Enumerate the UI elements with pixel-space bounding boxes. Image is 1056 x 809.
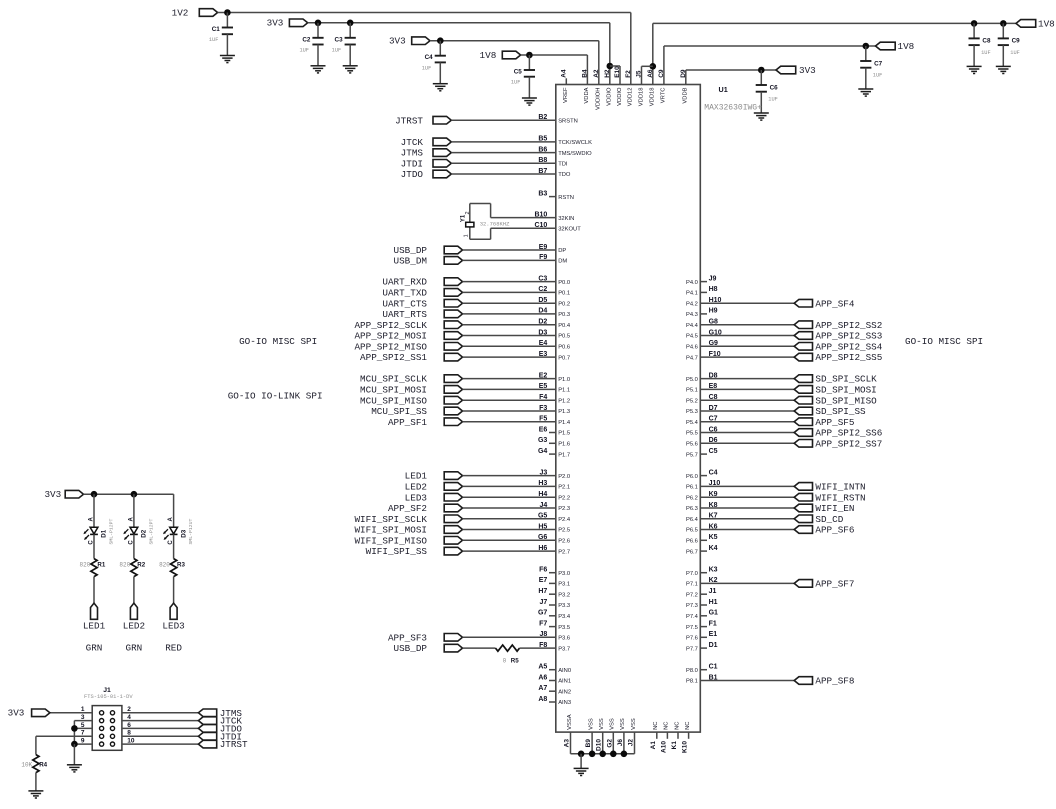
svg-text:MCU_SPI_MOSI: MCU_SPI_MOSI bbox=[360, 385, 427, 396]
svg-text:VSS: VSS bbox=[631, 718, 637, 730]
svg-text:USB_DM: USB_DM bbox=[394, 256, 427, 267]
svg-text:3V3: 3V3 bbox=[267, 18, 284, 29]
svg-text:P5.5: P5.5 bbox=[686, 431, 698, 437]
svg-text:P3.0: P3.0 bbox=[558, 571, 570, 577]
svg-text:GO-IO MISC SPI: GO-IO MISC SPI bbox=[905, 336, 983, 347]
svg-text:P4.4: P4.4 bbox=[686, 323, 699, 329]
svg-text:VDD12: VDD12 bbox=[628, 88, 634, 107]
svg-text:K6: K6 bbox=[709, 523, 718, 530]
svg-text:G3: G3 bbox=[538, 437, 547, 444]
svg-text:1UF: 1UF bbox=[332, 47, 342, 53]
svg-text:E10: E10 bbox=[614, 66, 621, 78]
svg-text:G5: G5 bbox=[538, 513, 547, 520]
svg-text:TDI: TDI bbox=[558, 162, 568, 168]
svg-text:B1: B1 bbox=[709, 674, 718, 681]
svg-text:WIFI_RSTN: WIFI_RSTN bbox=[815, 492, 865, 503]
svg-text:P2.0: P2.0 bbox=[558, 474, 570, 480]
svg-text:APP_SPI2_SS6: APP_SPI2_SS6 bbox=[815, 428, 882, 439]
svg-text:P0.7: P0.7 bbox=[558, 355, 570, 361]
svg-text:B3: B3 bbox=[538, 190, 547, 197]
svg-text:AIN2: AIN2 bbox=[558, 689, 571, 695]
svg-text:1UF: 1UF bbox=[299, 47, 309, 53]
svg-text:J4: J4 bbox=[540, 502, 548, 509]
svg-text:E2: E2 bbox=[539, 372, 548, 379]
svg-text:DM: DM bbox=[558, 259, 567, 265]
svg-text:P7.4: P7.4 bbox=[686, 614, 699, 620]
svg-text:C9: C9 bbox=[1012, 38, 1021, 45]
svg-text:P0.3: P0.3 bbox=[558, 312, 570, 318]
svg-text:RSTN: RSTN bbox=[558, 195, 574, 201]
svg-text:820: 820 bbox=[159, 562, 170, 569]
svg-text:GRN: GRN bbox=[126, 642, 143, 653]
svg-text:APP_SF7: APP_SF7 bbox=[815, 579, 854, 590]
svg-text:K7: K7 bbox=[709, 513, 718, 520]
svg-text:B9: B9 bbox=[585, 739, 592, 748]
svg-text:SD_SPI_SCLK: SD_SPI_SCLK bbox=[815, 374, 877, 385]
svg-text:A6: A6 bbox=[647, 69, 654, 78]
svg-text:SML-P12UT: SML-P12UT bbox=[188, 519, 194, 545]
svg-text:J9: J9 bbox=[709, 275, 717, 282]
svg-text:JTRST: JTRST bbox=[395, 115, 423, 126]
svg-text:LED3: LED3 bbox=[162, 621, 184, 632]
svg-text:H10: H10 bbox=[709, 297, 722, 304]
svg-text:NC: NC bbox=[664, 722, 670, 730]
svg-text:G1: G1 bbox=[709, 610, 718, 617]
svg-text:P5.2: P5.2 bbox=[686, 398, 698, 404]
svg-text:APP_SPI2_MOSI: APP_SPI2_MOSI bbox=[354, 331, 427, 342]
svg-text:JTMS: JTMS bbox=[401, 148, 424, 159]
svg-text:0: 0 bbox=[503, 657, 507, 664]
svg-text:K5: K5 bbox=[709, 534, 718, 541]
svg-text:WIFI_INTN: WIFI_INTN bbox=[815, 482, 865, 493]
svg-text:USB_DP: USB_DP bbox=[394, 643, 428, 654]
svg-text:1UF: 1UF bbox=[1010, 50, 1020, 56]
svg-text:3V3: 3V3 bbox=[8, 708, 25, 719]
svg-text:2: 2 bbox=[465, 211, 471, 214]
svg-text:J8: J8 bbox=[540, 631, 548, 638]
svg-text:P2.6: P2.6 bbox=[558, 539, 570, 545]
svg-text:LED1: LED1 bbox=[83, 621, 106, 632]
svg-text:F1: F1 bbox=[709, 620, 717, 627]
svg-text:A4: A4 bbox=[560, 69, 567, 78]
svg-text:P4.5: P4.5 bbox=[686, 334, 698, 340]
svg-text:3V3: 3V3 bbox=[44, 489, 61, 500]
svg-text:P2.3: P2.3 bbox=[558, 506, 570, 512]
svg-text:D6: D6 bbox=[709, 437, 718, 444]
svg-text:AIN0: AIN0 bbox=[558, 668, 571, 674]
svg-text:SD_SPI_MISO: SD_SPI_MISO bbox=[815, 395, 877, 406]
svg-text:H4: H4 bbox=[538, 491, 547, 498]
svg-text:P6.5: P6.5 bbox=[686, 528, 698, 534]
svg-text:P5.7: P5.7 bbox=[686, 452, 698, 458]
svg-text:GO-IO MISC SPI: GO-IO MISC SPI bbox=[239, 336, 317, 347]
svg-text:C7: C7 bbox=[709, 416, 718, 423]
svg-text:UART_TXD: UART_TXD bbox=[382, 288, 427, 299]
svg-text:APP_SPI2_SS3: APP_SPI2_SS3 bbox=[815, 331, 882, 342]
svg-text:P0.4: P0.4 bbox=[558, 323, 571, 329]
svg-text:P4.6: P4.6 bbox=[686, 345, 698, 351]
svg-text:APP_SPI2_SS1: APP_SPI2_SS1 bbox=[360, 352, 427, 363]
svg-text:P1.6: P1.6 bbox=[558, 442, 570, 448]
svg-text:P3.5: P3.5 bbox=[558, 625, 570, 631]
svg-text:WIFI_SPI_SS: WIFI_SPI_SS bbox=[366, 546, 428, 557]
svg-text:SML-P12PT: SML-P12PT bbox=[109, 519, 115, 545]
svg-text:B6: B6 bbox=[538, 146, 547, 153]
svg-text:JTCK: JTCK bbox=[401, 137, 424, 148]
svg-text:H7: H7 bbox=[538, 588, 547, 595]
svg-text:APP_SF4: APP_SF4 bbox=[815, 298, 854, 309]
svg-text:VDDB: VDDB bbox=[683, 87, 689, 103]
svg-text:G2: G2 bbox=[606, 739, 613, 748]
svg-text:1V8: 1V8 bbox=[898, 41, 915, 52]
svg-text:P4.0: P4.0 bbox=[686, 280, 698, 286]
svg-text:B2: B2 bbox=[538, 114, 547, 121]
svg-text:J1: J1 bbox=[709, 588, 717, 595]
svg-text:P7.1: P7.1 bbox=[686, 582, 698, 588]
svg-text:P2.5: P2.5 bbox=[558, 528, 570, 534]
svg-text:K2: K2 bbox=[709, 577, 718, 584]
svg-text:J10: J10 bbox=[709, 480, 721, 487]
svg-text:D5: D5 bbox=[538, 297, 547, 304]
svg-text:1UF: 1UF bbox=[511, 80, 521, 86]
svg-text:P1.5: P1.5 bbox=[558, 431, 570, 437]
svg-text:1UF: 1UF bbox=[209, 37, 219, 43]
svg-text:APP_SPI2_SS2: APP_SPI2_SS2 bbox=[815, 320, 882, 331]
svg-text:APP_SPI2_SS7: APP_SPI2_SS7 bbox=[815, 438, 882, 449]
svg-text:APP_SF3: APP_SF3 bbox=[388, 632, 427, 643]
svg-text:K10: K10 bbox=[682, 741, 689, 753]
svg-text:B8: B8 bbox=[538, 157, 547, 164]
svg-text:E3: E3 bbox=[539, 351, 548, 358]
svg-text:MCU_SPI_MISO: MCU_SPI_MISO bbox=[360, 395, 427, 406]
svg-text:P3.2: P3.2 bbox=[558, 592, 570, 598]
svg-text:C9: C9 bbox=[658, 69, 665, 78]
svg-text:H2: H2 bbox=[604, 69, 611, 78]
svg-text:A3: A3 bbox=[564, 739, 571, 748]
svg-text:MCU_SPI_SCLK: MCU_SPI_SCLK bbox=[360, 374, 427, 385]
svg-text:C2: C2 bbox=[538, 286, 547, 293]
svg-text:J3: J3 bbox=[540, 469, 548, 476]
svg-text:P3.3: P3.3 bbox=[558, 603, 570, 609]
svg-text:DP: DP bbox=[558, 248, 566, 254]
svg-text:APP_SF6: APP_SF6 bbox=[815, 525, 854, 536]
svg-text:APP_SPI2_SS4: APP_SPI2_SS4 bbox=[815, 341, 882, 352]
svg-text:P2.1: P2.1 bbox=[558, 485, 570, 491]
svg-text:APP_SPI2_MISO: APP_SPI2_MISO bbox=[354, 341, 427, 352]
svg-text:D7: D7 bbox=[709, 405, 718, 412]
svg-text:UART_RXD: UART_RXD bbox=[382, 277, 427, 288]
svg-text:JTRST: JTRST bbox=[220, 739, 248, 750]
svg-text:WIFI_SPI_MOSI: WIFI_SPI_MOSI bbox=[354, 525, 427, 536]
svg-text:E1: E1 bbox=[709, 631, 718, 638]
svg-text:AIN3: AIN3 bbox=[558, 700, 571, 706]
svg-text:APP_SPI2_SS5: APP_SPI2_SS5 bbox=[815, 352, 882, 363]
svg-text:E9: E9 bbox=[539, 244, 548, 251]
svg-text:VSS: VSS bbox=[599, 718, 605, 730]
svg-text:G9: G9 bbox=[709, 340, 718, 347]
svg-text:P4.2: P4.2 bbox=[686, 301, 698, 307]
svg-text:USB_DP: USB_DP bbox=[394, 245, 428, 256]
svg-text:SRSTN: SRSTN bbox=[558, 118, 578, 124]
svg-text:APP_SF1: APP_SF1 bbox=[388, 417, 427, 428]
svg-text:E7: E7 bbox=[539, 577, 548, 584]
svg-text:1V8: 1V8 bbox=[1038, 18, 1055, 29]
svg-text:VSS: VSS bbox=[610, 718, 616, 730]
svg-text:AIN1: AIN1 bbox=[558, 679, 571, 685]
svg-text:LED2: LED2 bbox=[123, 621, 145, 632]
svg-text:VDD18: VDD18 bbox=[650, 88, 656, 107]
svg-text:P0.2: P0.2 bbox=[558, 301, 570, 307]
svg-text:P3.7: P3.7 bbox=[558, 646, 570, 652]
svg-text:H5: H5 bbox=[538, 523, 547, 530]
svg-text:P1.4: P1.4 bbox=[558, 420, 571, 426]
svg-text:K8: K8 bbox=[709, 502, 718, 509]
svg-text:P0.0: P0.0 bbox=[558, 280, 570, 286]
svg-text:A2: A2 bbox=[593, 69, 600, 78]
svg-text:P5.0: P5.0 bbox=[686, 377, 698, 383]
svg-text:NC: NC bbox=[674, 722, 680, 730]
svg-text:SD_SPI_MOSI: SD_SPI_MOSI bbox=[815, 385, 876, 396]
svg-text:APP_SF5: APP_SF5 bbox=[815, 417, 854, 428]
svg-text:1: 1 bbox=[463, 234, 469, 237]
svg-text:C4: C4 bbox=[709, 469, 718, 476]
svg-text:P5.3: P5.3 bbox=[686, 409, 698, 415]
svg-text:H8: H8 bbox=[709, 286, 718, 293]
svg-text:J1: J1 bbox=[103, 687, 111, 694]
svg-text:1V2: 1V2 bbox=[172, 7, 189, 18]
svg-text:GO-IO IO-LINK SPI: GO-IO IO-LINK SPI bbox=[228, 390, 323, 401]
svg-text:F8: F8 bbox=[539, 642, 547, 649]
svg-text:P1.2: P1.2 bbox=[558, 398, 570, 404]
svg-text:P8.0: P8.0 bbox=[686, 668, 698, 674]
svg-text:32KIN: 32KIN bbox=[558, 216, 574, 222]
svg-text:VDDIOH: VDDIOH bbox=[596, 88, 602, 111]
svg-text:C6: C6 bbox=[770, 84, 779, 91]
svg-text:H3: H3 bbox=[538, 480, 547, 487]
svg-text:G10: G10 bbox=[709, 329, 722, 336]
svg-text:D3: D3 bbox=[538, 329, 547, 336]
svg-text:P6.4: P6.4 bbox=[686, 517, 699, 523]
svg-text:F5: F5 bbox=[539, 416, 547, 423]
svg-text:J5: J5 bbox=[636, 70, 643, 78]
svg-text:P7.3: P7.3 bbox=[686, 603, 698, 609]
svg-text:MAX32630IWG+: MAX32630IWG+ bbox=[704, 104, 762, 113]
svg-text:VSS: VSS bbox=[620, 718, 626, 730]
svg-text:P3.6: P3.6 bbox=[558, 636, 570, 642]
svg-text:C5: C5 bbox=[709, 448, 718, 455]
svg-text:P2.7: P2.7 bbox=[558, 549, 570, 555]
svg-text:10K: 10K bbox=[21, 761, 32, 768]
svg-text:K4: K4 bbox=[709, 545, 718, 552]
svg-text:P5.4: P5.4 bbox=[686, 420, 699, 426]
svg-text:APP_SF2: APP_SF2 bbox=[388, 503, 427, 514]
svg-text:P0.1: P0.1 bbox=[558, 291, 570, 297]
svg-text:F7: F7 bbox=[539, 620, 547, 627]
svg-text:E5: E5 bbox=[539, 383, 548, 390]
svg-text:C3: C3 bbox=[538, 275, 547, 282]
svg-text:VDDIO: VDDIO bbox=[617, 87, 623, 106]
svg-text:C: C bbox=[89, 540, 95, 545]
svg-text:D4: D4 bbox=[538, 308, 547, 315]
svg-text:P5.6: P5.6 bbox=[686, 442, 698, 448]
svg-text:F9: F9 bbox=[539, 254, 547, 261]
svg-text:P7.5: P7.5 bbox=[686, 625, 698, 631]
svg-text:D2: D2 bbox=[141, 529, 148, 537]
svg-text:P0.5: P0.5 bbox=[558, 334, 570, 340]
svg-text:NC: NC bbox=[685, 722, 691, 730]
svg-text:C: C bbox=[168, 540, 174, 545]
svg-text:LED2: LED2 bbox=[405, 482, 427, 493]
svg-text:C4: C4 bbox=[425, 54, 434, 61]
svg-text:F4: F4 bbox=[539, 394, 547, 401]
svg-text:R5: R5 bbox=[511, 657, 519, 664]
svg-text:1UF: 1UF bbox=[422, 65, 432, 71]
svg-text:D10: D10 bbox=[596, 739, 603, 751]
svg-text:R3: R3 bbox=[177, 562, 185, 569]
svg-text:E8: E8 bbox=[709, 383, 718, 390]
svg-text:TCK/SWCLK: TCK/SWCLK bbox=[558, 140, 592, 146]
svg-text:JTDO: JTDO bbox=[401, 169, 424, 180]
svg-text:P1.7: P1.7 bbox=[558, 452, 570, 458]
svg-text:JTDI: JTDI bbox=[401, 158, 423, 169]
svg-text:D1: D1 bbox=[101, 529, 108, 537]
svg-text:P7.7: P7.7 bbox=[686, 646, 698, 652]
svg-text:F3: F3 bbox=[539, 405, 547, 412]
svg-text:3V3: 3V3 bbox=[389, 36, 406, 47]
svg-text:C: C bbox=[129, 540, 135, 545]
svg-text:C8: C8 bbox=[709, 394, 718, 401]
svg-text:U1: U1 bbox=[719, 85, 728, 94]
svg-text:C5: C5 bbox=[514, 69, 523, 76]
svg-text:P8.1: P8.1 bbox=[686, 679, 698, 685]
svg-text:VREF: VREF bbox=[563, 87, 569, 103]
svg-text:A7: A7 bbox=[538, 685, 547, 692]
svg-text:R2: R2 bbox=[137, 562, 145, 569]
svg-text:E6: E6 bbox=[539, 426, 548, 433]
svg-text:WIFI_SPI_SCLK: WIFI_SPI_SCLK bbox=[354, 514, 427, 525]
svg-text:LED3: LED3 bbox=[405, 492, 427, 503]
svg-text:A10: A10 bbox=[660, 741, 667, 753]
svg-text:D1: D1 bbox=[709, 642, 718, 649]
svg-text:F10: F10 bbox=[709, 351, 721, 358]
svg-text:D2: D2 bbox=[538, 319, 547, 326]
svg-text:820: 820 bbox=[79, 562, 90, 569]
svg-text:C2: C2 bbox=[302, 36, 311, 43]
svg-text:P5.1: P5.1 bbox=[686, 388, 698, 394]
svg-text:32.768KHZ: 32.768KHZ bbox=[480, 220, 510, 227]
svg-text:C8: C8 bbox=[982, 38, 991, 45]
svg-text:B7: B7 bbox=[538, 168, 547, 175]
svg-text:APP_SF8: APP_SF8 bbox=[815, 676, 854, 687]
svg-text:VSSA: VSSA bbox=[567, 714, 573, 730]
svg-text:TDO: TDO bbox=[558, 172, 571, 178]
svg-text:A1: A1 bbox=[650, 741, 657, 750]
svg-text:C6: C6 bbox=[709, 426, 718, 433]
svg-text:P2.4: P2.4 bbox=[558, 517, 571, 523]
svg-text:VDDA: VDDA bbox=[584, 87, 590, 103]
svg-text:1V8: 1V8 bbox=[480, 50, 497, 61]
svg-text:NC: NC bbox=[653, 722, 659, 730]
svg-text:MCU_SPI_SS: MCU_SPI_SS bbox=[371, 406, 427, 417]
svg-text:WIFI_SPI_MISO: WIFI_SPI_MISO bbox=[354, 535, 427, 546]
svg-text:TMS/SWDIO: TMS/SWDIO bbox=[558, 151, 592, 157]
svg-text:J2: J2 bbox=[628, 739, 635, 747]
svg-text:SD_CD: SD_CD bbox=[815, 514, 843, 525]
svg-text:E4: E4 bbox=[539, 340, 548, 347]
svg-text:VRTC: VRTC bbox=[661, 88, 667, 104]
svg-text:P2.2: P2.2 bbox=[558, 495, 570, 501]
svg-text:C3: C3 bbox=[335, 36, 344, 43]
svg-text:1UF: 1UF bbox=[768, 97, 778, 103]
svg-text:P7.2: P7.2 bbox=[686, 592, 698, 598]
svg-text:32KOUT: 32KOUT bbox=[558, 227, 581, 233]
svg-text:VDD18: VDD18 bbox=[638, 88, 644, 107]
svg-text:B4: B4 bbox=[581, 69, 588, 78]
svg-text:P6.1: P6.1 bbox=[686, 485, 698, 491]
svg-text:P1.1: P1.1 bbox=[558, 388, 570, 394]
svg-text:C7: C7 bbox=[874, 60, 883, 67]
svg-text:UART_RTS: UART_RTS bbox=[382, 309, 427, 320]
svg-text:A8: A8 bbox=[538, 696, 547, 703]
svg-text:820: 820 bbox=[119, 562, 130, 569]
svg-text:P7.6: P7.6 bbox=[686, 636, 698, 642]
svg-text:RED: RED bbox=[165, 642, 182, 653]
svg-text:P6.2: P6.2 bbox=[686, 495, 698, 501]
svg-text:G4: G4 bbox=[538, 448, 547, 455]
svg-text:P1.0: P1.0 bbox=[558, 377, 570, 383]
svg-text:SD_SPI_SS: SD_SPI_SS bbox=[815, 406, 866, 417]
svg-text:P4.7: P4.7 bbox=[686, 355, 698, 361]
svg-text:P6.6: P6.6 bbox=[686, 539, 698, 545]
svg-text:A6: A6 bbox=[538, 674, 547, 681]
svg-text:P4.1: P4.1 bbox=[686, 291, 698, 297]
svg-text:A5: A5 bbox=[538, 664, 547, 671]
svg-text:SML-P12PT: SML-P12PT bbox=[149, 519, 155, 545]
svg-text:1UF: 1UF bbox=[981, 50, 991, 56]
svg-text:R1: R1 bbox=[97, 562, 105, 569]
svg-text:G7: G7 bbox=[538, 610, 547, 617]
svg-text:APP_SPI2_SCLK: APP_SPI2_SCLK bbox=[354, 320, 427, 331]
svg-text:D8: D8 bbox=[709, 372, 718, 379]
svg-text:A: A bbox=[129, 516, 135, 521]
svg-text:J7: J7 bbox=[540, 599, 548, 606]
svg-text:A: A bbox=[89, 516, 95, 521]
svg-text:VDDIO: VDDIO bbox=[607, 87, 613, 106]
svg-text:R4: R4 bbox=[39, 761, 47, 768]
svg-text:G6: G6 bbox=[538, 534, 547, 541]
svg-text:D9: D9 bbox=[680, 69, 687, 78]
svg-text:B5: B5 bbox=[538, 136, 547, 143]
svg-text:P6.3: P6.3 bbox=[686, 506, 698, 512]
svg-text:K9: K9 bbox=[709, 491, 718, 498]
svg-text:D3: D3 bbox=[180, 529, 187, 537]
svg-text:UART_CTS: UART_CTS bbox=[382, 298, 427, 309]
svg-text:P7.0: P7.0 bbox=[686, 571, 698, 577]
svg-text:P3.4: P3.4 bbox=[558, 614, 571, 620]
svg-text:K1: K1 bbox=[671, 741, 678, 750]
svg-text:3V3: 3V3 bbox=[799, 65, 816, 76]
svg-text:F2: F2 bbox=[625, 70, 632, 78]
svg-text:P3.1: P3.1 bbox=[558, 582, 570, 588]
svg-text:P4.3: P4.3 bbox=[686, 312, 698, 318]
svg-text:F6: F6 bbox=[539, 567, 547, 574]
svg-text:H9: H9 bbox=[709, 308, 718, 315]
svg-text:A: A bbox=[168, 516, 174, 521]
svg-text:P1.3: P1.3 bbox=[558, 409, 570, 415]
svg-text:G8: G8 bbox=[709, 319, 718, 326]
svg-text:C1: C1 bbox=[709, 664, 718, 671]
svg-text:GRN: GRN bbox=[86, 642, 103, 653]
